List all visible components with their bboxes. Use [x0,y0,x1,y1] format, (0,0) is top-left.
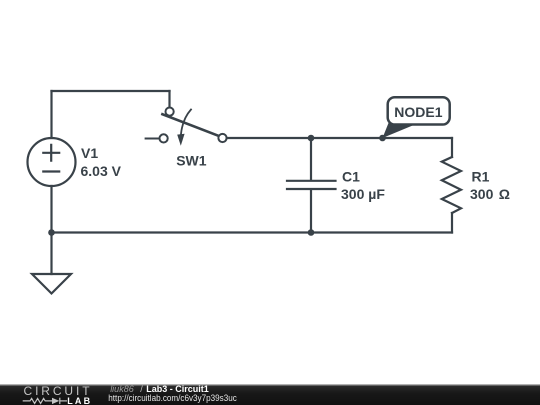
NODE1 callout [383,97,450,138]
label V1 value [81,145,122,179]
wire stub to left throw [146,138,160,140]
CircuitLab logo wordmark CIRCUIT [24,384,93,398]
wire switch drop [168,91,170,108]
footer bar [0,384,540,405]
voltage source V1 [28,138,76,186]
label SW1 [176,153,207,169]
svg-text:NODE1: NODE1 [394,104,442,120]
capacitor C1 bottom lead [310,190,312,233]
wire top-right horizontal [227,137,452,139]
switch SW1 top terminal [166,108,174,116]
resistor R1 zigzag [442,157,461,213]
label R1 value [470,168,510,202]
capacitor C1 top plate [287,180,336,182]
junction dot at C1 bottom [308,229,315,236]
wire V1 bottom to junction [50,186,52,233]
junction dot at V1 bottom rail [48,229,55,236]
svg-text:R1: R1 [472,168,490,184]
wire bottom horizontal [52,231,453,233]
svg-text:LAB: LAB [67,396,92,405]
capacitor C1 [287,138,336,233]
CircuitLab logo schematic squiggle with diode [23,398,67,404]
resistor R1 bottom lead [451,213,453,233]
svg-text:6.03 V: 6.03 V [81,163,122,179]
switch SW1 actuation arrow [181,110,191,135]
switch SW1 left throw terminal [160,134,168,142]
svg-text:300 µF: 300 µF [341,186,385,202]
svg-text:SW1: SW1 [176,153,207,169]
wire ground lead [50,233,52,275]
switch SW1 [146,108,227,146]
capacitor C1 bottom plate [287,188,336,190]
footer title line [108,384,237,403]
junction dot at C1 top [308,135,315,142]
switch SW1 blade [162,114,223,138]
svg-text:V1: V1 [81,145,98,161]
svg-text:http://circuitlab.com/c6v3y7p3: http://circuitlab.com/c6v3y7p39s3uc [108,393,237,403]
ground symbol [32,274,71,294]
resistor R1 [442,138,461,233]
label C1 value [341,168,385,202]
resistor R1 top lead [451,138,453,157]
V1 plus sign [43,145,59,161]
svg-text:C1: C1 [342,168,360,184]
wire left vertical (V1 top to corner) [50,91,52,138]
CircuitLab logo LAB [67,396,92,405]
svg-text:300 Ω: 300 Ω [470,186,510,202]
V1 minus sign [43,170,59,172]
switch SW1 right terminal [218,134,226,142]
node NODE1 dot [379,135,386,142]
capacitor C1 top lead [310,138,312,180]
wire top horizontal [52,90,170,92]
